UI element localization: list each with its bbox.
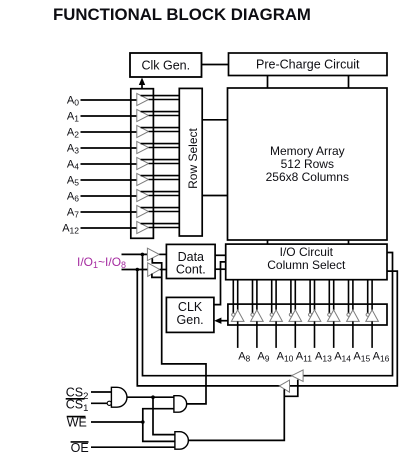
svg-text:Cont.: Cont. — [176, 262, 206, 276]
wire we net up to gate2 — [143, 409, 174, 422]
io write buffer (lower triangle) — [148, 263, 160, 277]
label WE (overline) — [67, 416, 87, 430]
svg-text:Pre-Charge Circuit: Pre-Charge Circuit — [256, 57, 360, 71]
wire pre-charge to memory array right — [348, 76, 350, 89]
data cont box — [166, 244, 215, 278]
wire CS1 to gate1 bubble — [91, 402, 107, 404]
wire write buffer to data cont — [160, 269, 167, 271]
node junction upper io — [141, 253, 145, 257]
gate2 AND (write control) — [174, 396, 187, 413]
input buffer A1 — [67, 109, 179, 123]
memory array box — [228, 88, 388, 240]
wire row select to memory 2 — [202, 195, 227, 197]
io input buffer (upper triangle) — [147, 248, 159, 260]
write path buffer on write line — [279, 380, 289, 392]
svg-text:FUNCTIONAL BLOCK DIAGRAM: FUNCTIONAL BLOCK DIAGRAM — [53, 5, 311, 24]
node junction we net — [141, 420, 145, 424]
svg-text:CLK: CLK — [178, 300, 203, 314]
svg-text:I/O1~I/O8: I/O1~I/O8 — [77, 255, 126, 270]
wire write-enable net from gate2 up to io buffers — [152, 258, 206, 404]
wire gate1 output to gate2 — [127, 396, 174, 398]
column buffer box — [228, 304, 387, 325]
input buffer A5 — [67, 173, 179, 187]
wire io upper line — [122, 253, 148, 255]
wire WE to junction — [91, 421, 143, 423]
svg-text:I/O Circuit: I/O Circuit — [280, 245, 334, 259]
wire OE to gate3 — [91, 446, 175, 448]
svg-text:Gen.: Gen. — [177, 313, 204, 327]
io circuit column select box — [226, 244, 387, 280]
svg-text:Memory Array: Memory Array — [270, 144, 345, 158]
wire io circuit to clk gen — [214, 262, 226, 305]
wire data cont to io circuit upper — [215, 254, 226, 256]
node junction lower io — [136, 268, 140, 272]
svg-text:Clk Gen.: Clk Gen. — [141, 58, 190, 72]
wire output-enable net from gate3 to buffers — [188, 389, 284, 440]
column buffer A10 — [270, 280, 294, 364]
svg-text:512 Rows: 512 Rows — [281, 157, 334, 171]
clk gen box (top) — [130, 53, 202, 77]
wire we net down to gate3 — [143, 422, 175, 441]
bubble on gate1 input — [107, 401, 111, 405]
input buffer A0 — [67, 93, 179, 107]
wire write data loop (io pads to io circuit right) — [137, 270, 397, 386]
wire row select to memory 1 — [202, 119, 227, 121]
input buffer A6 — [67, 189, 179, 203]
column buffer A9 — [251, 280, 270, 364]
input buffer A3 — [67, 141, 179, 155]
wire memory to io circuit right — [348, 240, 350, 244]
address buffer box — [131, 89, 154, 239]
column buffer A8 — [231, 280, 250, 364]
column buffer A16 — [366, 280, 390, 364]
input buffer A7 — [67, 205, 179, 219]
column buffer A11 — [289, 280, 312, 364]
clk gen box (lower) — [166, 297, 214, 332]
label OE (overline) — [71, 441, 89, 455]
wire CS2 to gate1 — [91, 391, 111, 393]
read output buffer on read line — [292, 370, 304, 382]
svg-text:OE: OE — [71, 441, 89, 455]
column buffer A15 — [347, 280, 371, 364]
wire cs net down to gate3 — [153, 397, 175, 434]
svg-text:256x8 Columns: 256x8 Columns — [266, 170, 349, 184]
wire data cont to io circuit lower — [215, 268, 226, 270]
input buffer A12 — [62, 221, 179, 235]
arrow address buffer to clk gen — [139, 78, 145, 89]
wire input buffer to data cont — [159, 253, 166, 255]
svg-text:Column Select: Column Select — [267, 258, 346, 272]
column buffer A13 — [308, 280, 332, 364]
pre-charge circuit box — [229, 53, 388, 76]
column buffer A14 — [327, 280, 351, 364]
svg-text:WE: WE — [67, 416, 87, 430]
node junction cs net — [151, 395, 155, 399]
gate3 AND (output control) — [175, 432, 188, 450]
wire read data loop (io circuit right to io pads) — [143, 253, 393, 376]
wire memory to io circuit left — [267, 240, 269, 244]
arrow column box to clk gen — [214, 318, 228, 324]
wire clk gen to pre-charge — [202, 64, 229, 66]
label CS1 (overline) — [66, 398, 89, 415]
wire pre-charge to memory array left — [267, 76, 269, 89]
input buffer A2 — [67, 125, 179, 139]
input buffer A4 — [67, 157, 179, 171]
wire io lower line — [122, 269, 148, 271]
gate1 AND (chip select) — [111, 387, 127, 407]
wire enable tap to write buffer — [152, 274, 162, 278]
row select box — [179, 88, 202, 236]
wire enable branch to read buffer — [284, 380, 298, 397]
svg-text:Row Select: Row Select — [186, 127, 200, 188]
